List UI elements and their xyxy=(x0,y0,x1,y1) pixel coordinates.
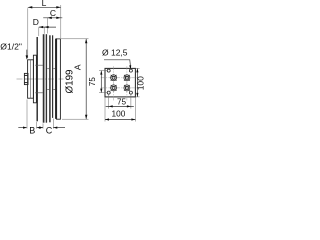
svg-text:B: B xyxy=(29,125,35,135)
svg-text:Ø1/2": Ø1/2" xyxy=(0,41,22,51)
dimension L xyxy=(28,0,61,58)
corner hole bottom-right xyxy=(129,91,132,94)
dimension 100 (bottom) xyxy=(105,98,135,122)
right cylinder Ø199 xyxy=(57,39,61,119)
square flange plate xyxy=(105,68,135,97)
disc 6 xyxy=(56,39,57,119)
disc 2 xyxy=(43,34,45,123)
dimension 75 (left, vertical) xyxy=(88,71,107,93)
disc 1 xyxy=(36,37,38,121)
dimension 75 (bottom) xyxy=(106,95,134,109)
centerline left view xyxy=(17,78,64,80)
disc 4 xyxy=(49,35,51,122)
hub segment 3 xyxy=(53,69,55,90)
left flange xyxy=(28,60,34,98)
corner hole top-left xyxy=(107,69,110,72)
corner hole top-right xyxy=(129,69,132,72)
svg-text:C: C xyxy=(50,8,56,18)
svg-text:D: D xyxy=(33,17,39,27)
dimension A (vertical, right of left view) xyxy=(57,39,89,119)
bottom dimensions B and C xyxy=(18,100,65,136)
hub segment 2 xyxy=(47,69,49,90)
dimension 100 (right, vertical) xyxy=(135,68,145,97)
svg-text:75: 75 xyxy=(117,97,127,106)
disc 3 xyxy=(45,34,47,123)
bolt hole 4 (bottom-right, with rim ticks) xyxy=(124,85,130,91)
bolt hole 2 (top-right, with rim ticks) xyxy=(124,75,130,81)
disc 5 xyxy=(52,35,54,118)
middle cylinder xyxy=(33,55,36,103)
svg-text:C: C xyxy=(46,125,53,135)
svg-text:100: 100 xyxy=(135,76,145,90)
label Ø1/2" with leader xyxy=(0,41,28,59)
svg-text:Ø199: Ø199 xyxy=(64,70,75,94)
dimension C top xyxy=(43,5,62,38)
svg-text:75: 75 xyxy=(88,77,97,86)
hub segment 1 xyxy=(35,65,43,93)
svg-text:L: L xyxy=(42,0,47,8)
dimension D xyxy=(33,17,56,36)
bolt hole 1 (top-left, with rim ticks) xyxy=(111,75,117,81)
bolt hole 3 (bottom-left, with rim ticks) xyxy=(111,85,117,91)
svg-text:100: 100 xyxy=(111,108,125,118)
svg-text:A: A xyxy=(72,64,82,70)
plate centerlines xyxy=(101,66,138,100)
label Ø 12,5 with leader xyxy=(102,48,131,70)
svg-text:Ø 12,5: Ø 12,5 xyxy=(102,48,128,58)
grease nipple Ø1/2" stub xyxy=(24,73,28,84)
corner hole bottom-left xyxy=(107,91,110,94)
